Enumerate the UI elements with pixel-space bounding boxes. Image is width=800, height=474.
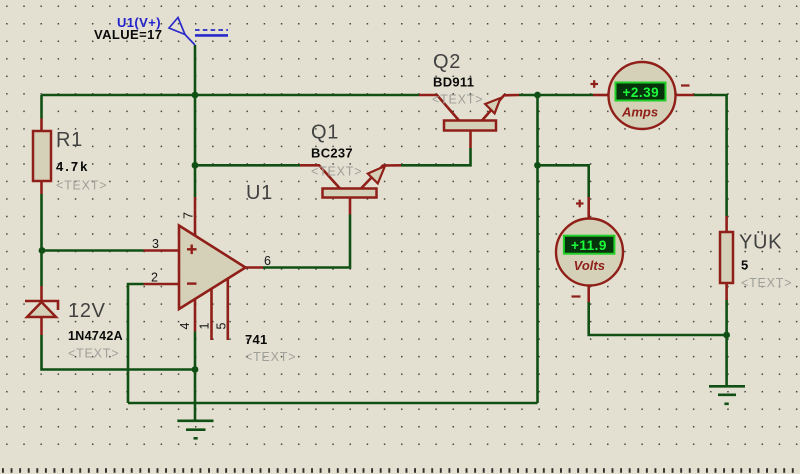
load resistor YUK	[720, 216, 733, 300]
wire to voltmeter plus	[538, 165, 589, 197]
svg-text:4: 4	[178, 323, 192, 330]
svg-text:7: 7	[182, 212, 196, 219]
wire to op-amp pin 2	[128, 284, 144, 403]
voltmeter	[556, 197, 623, 302]
wire Q1 emitter to Q2 base	[401, 148, 471, 165]
wire to Q1 collector	[195, 164, 300, 167]
wire feedback bottom	[128, 402, 538, 405]
ground left	[177, 421, 213, 439]
svg-text:+2.39: +2.39	[622, 85, 659, 100]
svg-text:Volts: Volts	[574, 258, 605, 273]
wire left rail upper	[40, 95, 43, 119]
svg-text:6: 6	[264, 254, 271, 268]
node junction ground rail	[192, 366, 199, 373]
svg-text:5: 5	[741, 258, 748, 273]
node junction pin 3 zener	[39, 247, 46, 254]
svg-text:741: 741	[245, 332, 268, 347]
svg-text:+11.9: +11.9	[571, 238, 607, 253]
svg-text:Amps: Amps	[621, 105, 658, 120]
svg-text:Q2: Q2	[433, 51, 461, 73]
wire load to ground	[725, 300, 728, 386]
wire left rail middle	[40, 194, 43, 286]
node junction voltmeter plus	[534, 162, 541, 169]
svg-text:R1: R1	[56, 129, 83, 151]
svg-text:<TEXT>: <TEXT>	[56, 179, 107, 193]
voltmeter minus mark	[572, 295, 581, 297]
svg-text:BC237: BC237	[311, 146, 353, 161]
svg-text:U1: U1	[246, 182, 273, 204]
svg-text:3: 3	[152, 237, 159, 251]
wire ammeter to load	[694, 95, 727, 216]
transistor Q1	[300, 165, 401, 214]
transistor Q2	[419, 95, 519, 148]
svg-text:1N4742A: 1N4742A	[68, 329, 123, 343]
zener diode 12V 1N4742A	[25, 286, 58, 335]
wire top rail	[42, 94, 420, 97]
node junction top	[192, 92, 199, 99]
node junction Q2 emitter	[534, 92, 541, 99]
svg-text:2: 2	[151, 271, 158, 285]
svg-text:YÜK: YÜK	[739, 232, 782, 254]
svg-text:12V: 12V	[68, 300, 106, 322]
svg-text:Q1: Q1	[311, 122, 339, 144]
svg-text:BD911: BD911	[433, 75, 474, 90]
svg-text:VALUE=17: VALUE=17	[94, 27, 162, 42]
svg-text:<TEXT>: <TEXT>	[311, 165, 362, 179]
wire op-amp output to Q1 base	[263, 215, 350, 268]
svg-text:<TEXT>: <TEXT>	[68, 347, 119, 361]
voltmeter plus mark	[576, 200, 584, 208]
power terminal U1(V+)	[169, 18, 228, 46]
ammeter plus mark	[591, 80, 599, 88]
wire Q2 emitter to ammeter	[519, 94, 593, 97]
ammeter	[593, 62, 694, 129]
svg-text:1: 1	[198, 323, 212, 330]
ground right	[709, 386, 745, 404]
wire main vertical V+	[194, 45, 197, 197]
wire voltmeter minus to ground rail	[589, 302, 727, 335]
wire op-amp pin 4 to ground	[194, 332, 197, 420]
svg-text:<TEXT>: <TEXT>	[741, 276, 792, 290]
wire left rail lower	[42, 335, 196, 370]
ammeter minus mark	[681, 84, 690, 86]
svg-text:<TEXT>: <TEXT>	[432, 93, 483, 107]
wire feedback vertical	[536, 95, 539, 403]
node junction load bottom	[723, 332, 730, 339]
svg-text:<TEXT>: <TEXT>	[245, 350, 296, 364]
svg-text:5: 5	[215, 323, 229, 330]
node junction Q1 collector	[192, 162, 199, 169]
svg-text:4.7k: 4.7k	[56, 159, 89, 174]
op-amp U1	[144, 197, 264, 340]
resistor R1	[33, 119, 51, 195]
wire to op-amp pin 3	[42, 249, 144, 252]
